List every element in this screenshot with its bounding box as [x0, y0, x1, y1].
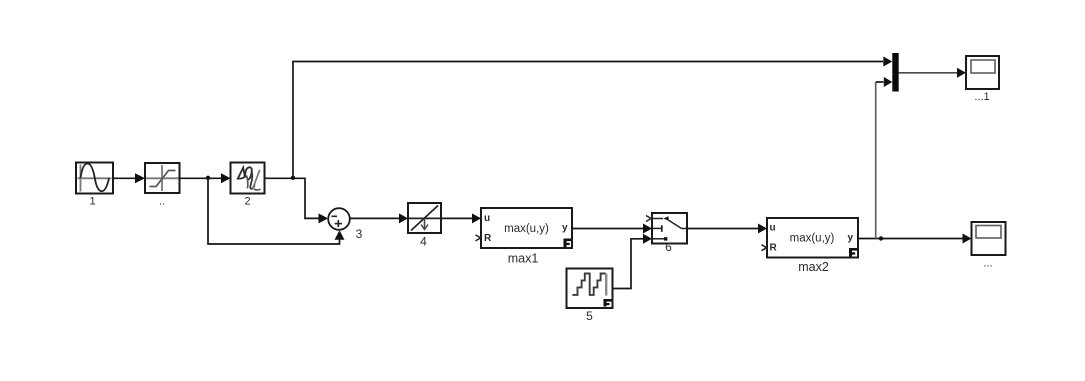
block: saturation (label ..): [145, 163, 180, 208]
node: branch junction after block2: [291, 176, 295, 180]
svg-text:6: 6: [665, 240, 672, 254]
wire: block2 output with junction, down to sum left input: [265, 178, 319, 218]
sum junction 3: [328, 208, 362, 241]
wire: max2 y output right to scope2: [858, 238, 963, 240]
wire: block5 output up to switch bottom input: [613, 239, 644, 289]
F badge block5: [604, 299, 612, 307]
block max1: [476, 208, 573, 266]
node: branch junction after saturation: [206, 176, 210, 180]
svg-text:max(u,y): max(u,y): [790, 233, 835, 245]
scope ...1: [966, 56, 999, 103]
F badge max2: [849, 248, 858, 257]
wire: branch down from junction to sum bottom input: [208, 178, 340, 244]
svg-text:2: 2: [244, 196, 250, 208]
block 4: rate limiter: [408, 203, 441, 249]
svg-text:1: 1: [89, 196, 95, 208]
block max2: [762, 218, 859, 274]
svg-text:...1: ...1: [974, 91, 989, 103]
svg-text:R: R: [484, 233, 492, 244]
wire: sum output to rate limiter: [350, 217, 400, 219]
svg-text:y: y: [848, 233, 854, 244]
scope ...: [972, 222, 1006, 270]
wire: branch up from max2 output to mux bottom input: [875, 82, 877, 239]
svg-text:..: ..: [159, 196, 165, 208]
F badge max1: [564, 239, 573, 248]
svg-text:3: 3: [356, 227, 363, 241]
wire: max1 y output to switch middle input: [572, 228, 644, 230]
block 2: signal shaping block: [231, 163, 265, 208]
svg-text:max(u,y): max(u,y): [504, 223, 549, 235]
wire: rate limiter output to max1 u input: [441, 217, 473, 219]
mux: black bar: [892, 53, 898, 92]
svg-text:5: 5: [586, 309, 593, 323]
wire: switch output to max2 u input: [687, 228, 759, 230]
unconnected R port chevron: [476, 235, 481, 241]
block 1: sine wave source: [76, 163, 113, 208]
unconnected R port chevron max2: [762, 245, 767, 251]
svg-text:...: ...: [983, 258, 992, 270]
svg-text:u: u: [484, 213, 490, 224]
svg-text:u: u: [770, 223, 776, 234]
node: junction on max2 output: [879, 236, 883, 240]
svg-text:R: R: [770, 243, 778, 254]
svg-text:max2: max2: [798, 260, 829, 274]
wire: mux output to scope1: [899, 72, 958, 74]
wire: saturation to block2 with junction: [180, 177, 222, 179]
wire: block1 to saturation: [113, 177, 136, 179]
block 6: switch: [646, 213, 687, 254]
block 5: repeating stair source: [567, 269, 613, 324]
svg-text:max1: max1: [508, 252, 539, 266]
svg-text:4: 4: [420, 235, 427, 249]
wire: long feedback from block2 junction up and right to mux top input: [293, 62, 883, 178]
svg-text:y: y: [562, 223, 568, 234]
